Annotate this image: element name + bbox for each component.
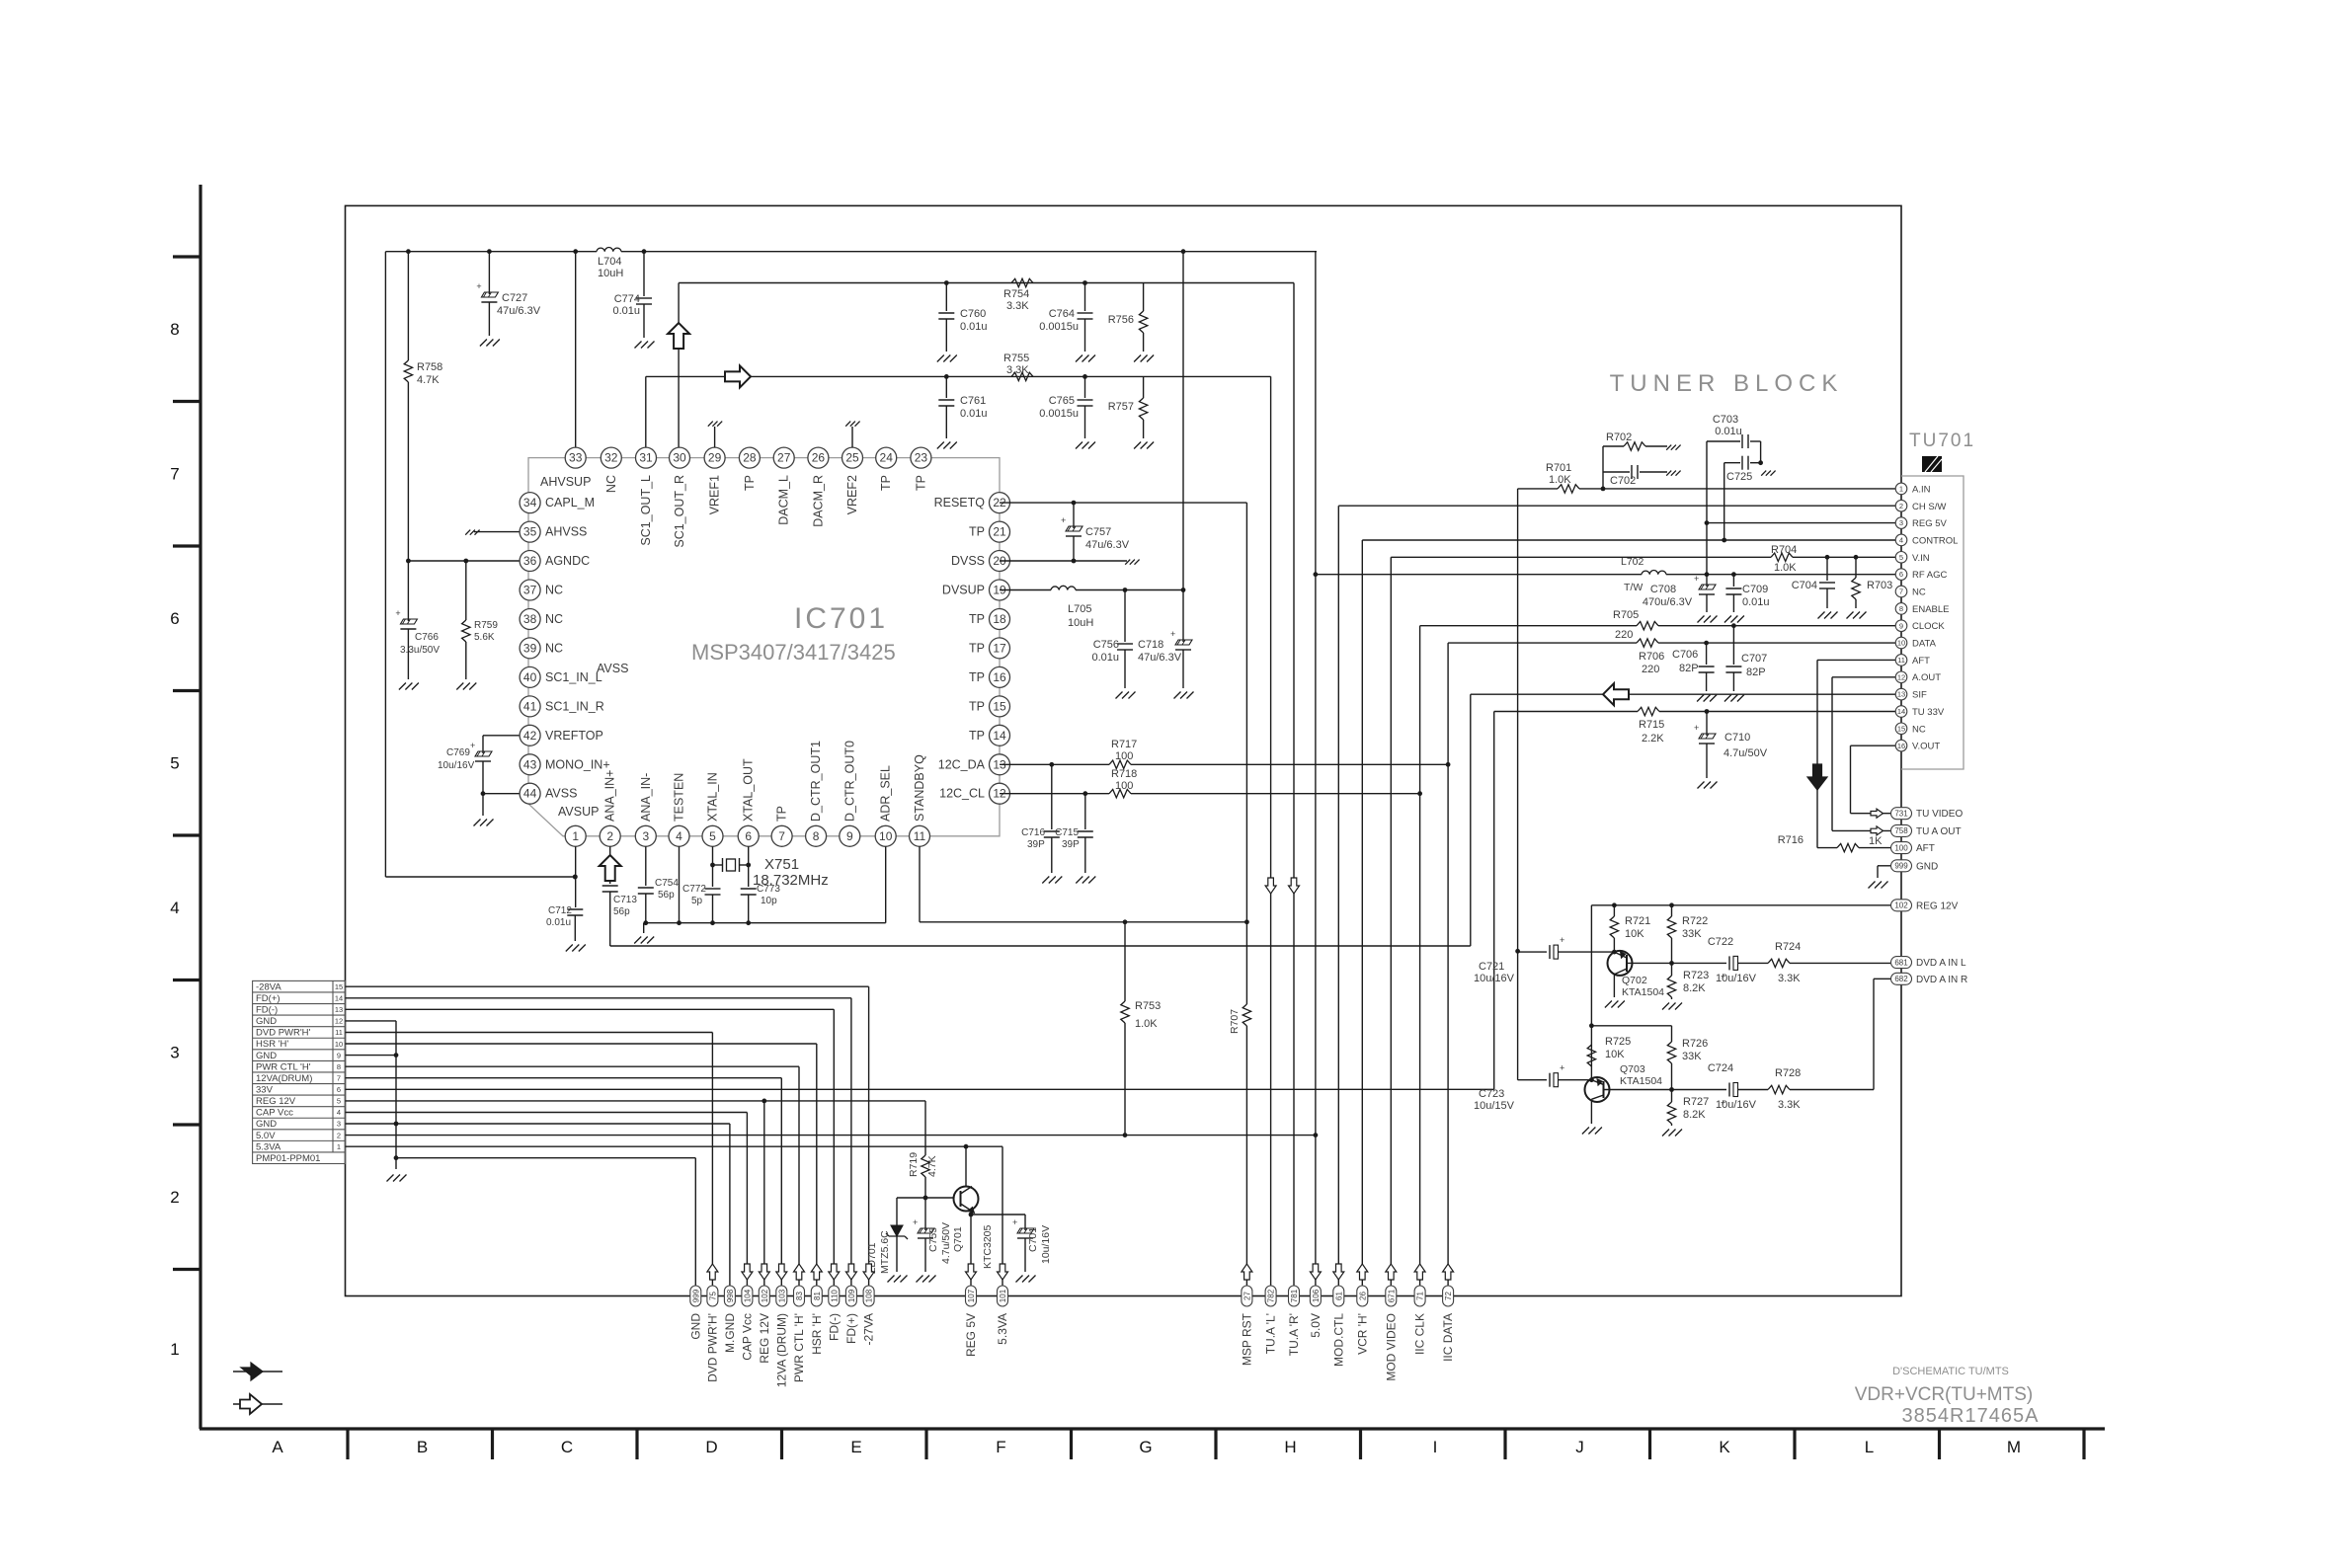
svg-text:G: G — [1139, 1438, 1152, 1456]
transistor Q703 — [1585, 1077, 1610, 1102]
node FD(+) — [845, 1286, 856, 1306]
svg-text:0.0015u: 0.0015u — [1039, 321, 1079, 333]
capacitor C715 — [1084, 794, 1086, 829]
svg-text:14: 14 — [993, 729, 1006, 743]
ground C766 — [399, 683, 406, 690]
svg-text:15: 15 — [1897, 724, 1905, 733]
svg-text:AHVSUP: AHVSUP — [540, 475, 591, 489]
svg-text:VREFTOP: VREFTOP — [545, 729, 603, 743]
svg-text:+: + — [1694, 723, 1699, 733]
svg-text:C755: C755 — [927, 1227, 939, 1252]
wire Q702 emitter — [1627, 962, 1672, 964]
svg-text:R727: R727 — [1683, 1096, 1709, 1108]
IC701 pin 31 — [636, 447, 657, 468]
svg-text:12C_DA: 12C_DA — [938, 757, 986, 771]
resistor R727 — [1671, 1090, 1673, 1103]
capacitor C703 — [1741, 434, 1743, 448]
wire XTAL_IN + capacitor C772 — [712, 846, 714, 887]
ground C704 — [1818, 612, 1825, 619]
svg-text:C724: C724 — [1708, 1062, 1733, 1074]
svg-text:+: + — [1560, 935, 1564, 945]
capacitor C701 — [1017, 1228, 1034, 1233]
svg-text:TU.A 'R': TU.A 'R' — [1287, 1313, 1301, 1356]
svg-text:6: 6 — [745, 829, 752, 843]
wire Q701 base — [897, 1197, 954, 1199]
capacitor C769 — [475, 751, 492, 756]
svg-text:GND: GND — [256, 1119, 277, 1130]
svg-text:72: 72 — [1444, 1292, 1453, 1300]
svg-text:TU 33V: TU 33V — [1912, 707, 1945, 718]
svg-text:PMP01-PPM01: PMP01-PPM01 — [256, 1153, 320, 1164]
svg-text:Q703: Q703 — [1620, 1063, 1645, 1075]
svg-text:R702: R702 — [1606, 431, 1632, 443]
wire 5.0V vertical — [1315, 252, 1317, 1287]
svg-text:AVSS: AVSS — [597, 662, 628, 675]
arrow CAP Vcc — [742, 1264, 753, 1280]
svg-text:SC1_OUT_R: SC1_OUT_R — [673, 475, 686, 548]
svg-text:220: 220 — [1642, 664, 1659, 675]
svg-text:DVSUP: DVSUP — [942, 584, 985, 597]
resistor R759 — [462, 620, 470, 642]
wire V.OUT loop — [1851, 745, 1896, 746]
resistor R703 — [1855, 557, 1857, 578]
svg-text:NC: NC — [545, 584, 563, 597]
svg-text:R707: R707 — [1229, 1009, 1241, 1034]
svg-text:4.7u/50V: 4.7u/50V — [1724, 747, 1768, 759]
capacitor C765 — [1078, 399, 1093, 401]
svg-text:33K: 33K — [1682, 928, 1702, 940]
capacitor C769 — [483, 735, 520, 737]
resistor R701 — [1558, 485, 1579, 493]
svg-text:1.0K: 1.0K — [1774, 562, 1797, 574]
svg-text:10K: 10K — [1605, 1049, 1625, 1060]
svg-text:GND: GND — [256, 1051, 277, 1061]
svg-text:0.01u: 0.01u — [1742, 596, 1770, 608]
svg-text:106: 106 — [1312, 1289, 1321, 1302]
svg-text:TUNER BLOCK: TUNER BLOCK — [1610, 370, 1844, 397]
svg-text:C712: C712 — [548, 905, 572, 916]
resistor R721 — [1610, 916, 1618, 938]
capacitor C761 — [938, 399, 954, 401]
svg-text:R704: R704 — [1771, 544, 1797, 556]
svg-text:33: 33 — [569, 451, 583, 465]
arrow VCR 'H' — [1357, 1264, 1368, 1280]
ground C702 — [1666, 471, 1671, 476]
resistor R717 — [1109, 760, 1131, 768]
svg-text:FD(-): FD(-) — [256, 1005, 278, 1016]
svg-text:6: 6 — [170, 609, 179, 628]
svg-text:16: 16 — [993, 670, 1006, 684]
capacitor C703 — [1707, 440, 1740, 442]
capacitor C756 — [1117, 643, 1133, 645]
svg-text:R757: R757 — [1108, 401, 1134, 413]
ground R702 — [1666, 445, 1671, 450]
wire Q703 collector to gnd — [1590, 1099, 1592, 1124]
resistor R716 — [1837, 843, 1859, 851]
wire TU.A R vertical — [1293, 283, 1295, 1287]
svg-text:2: 2 — [1899, 502, 1903, 510]
wire A.IN vertical — [1517, 489, 1519, 1080]
svg-text:104: 104 — [743, 1289, 752, 1302]
capacitor C716 — [1044, 830, 1060, 832]
IC701 pin 3 — [635, 825, 656, 846]
svg-text:R718: R718 — [1111, 768, 1137, 780]
svg-text:C754: C754 — [655, 878, 679, 889]
IC701 pin 20 — [990, 551, 1010, 572]
svg-text:C765: C765 — [1049, 395, 1075, 407]
svg-text:MSP3407/3417/3425: MSP3407/3417/3425 — [691, 640, 896, 665]
wire Q701 emitter / REG 5V — [971, 1212, 973, 1215]
svg-text:1: 1 — [337, 1142, 341, 1151]
svg-text:TP: TP — [969, 729, 985, 743]
svg-text:27: 27 — [1243, 1292, 1251, 1300]
svg-text:4: 4 — [676, 829, 682, 843]
svg-text:DATA: DATA — [1912, 639, 1937, 650]
node M.GND — [724, 1286, 735, 1306]
svg-text:AFT: AFT — [1912, 656, 1930, 666]
svg-text:RF AGC: RF AGC — [1912, 570, 1948, 581]
svg-text:TP: TP — [969, 641, 985, 655]
svg-text:998: 998 — [726, 1289, 735, 1302]
TU701 pin 1 — [1895, 483, 1907, 495]
legend filled arrow — [241, 1363, 263, 1380]
capacitor C766 — [400, 619, 417, 624]
svg-text:GND: GND — [256, 1016, 277, 1027]
svg-text:37: 37 — [523, 584, 537, 597]
svg-text:39P: 39P — [1027, 839, 1045, 850]
svg-text:3: 3 — [642, 829, 649, 843]
svg-text:C722: C722 — [1708, 936, 1733, 948]
svg-text:3854R17465A: 3854R17465A — [1902, 1405, 2040, 1427]
wire base Q702 — [1518, 951, 1547, 953]
node TU A OUT — [1891, 824, 1912, 836]
wire STANDBYQ — [919, 846, 921, 921]
svg-text:9: 9 — [337, 1051, 341, 1059]
svg-text:3: 3 — [1899, 518, 1903, 527]
svg-text:108: 108 — [865, 1289, 874, 1302]
svg-text:2: 2 — [606, 829, 613, 843]
capacitor C725 — [1741, 456, 1743, 470]
svg-text:13: 13 — [1897, 690, 1905, 699]
TU701 connector mark — [1922, 456, 1942, 472]
svg-text:C721: C721 — [1479, 961, 1504, 973]
svg-text:REG 12V: REG 12V — [758, 1313, 771, 1364]
svg-text:NC: NC — [604, 475, 618, 493]
capacitor C712 — [575, 846, 577, 907]
resistor R705 — [1637, 622, 1658, 630]
svg-text:I: I — [1433, 1438, 1438, 1456]
node FD(-) — [829, 1286, 840, 1306]
svg-text:10: 10 — [1897, 639, 1905, 648]
svg-text:IIC CLK: IIC CLK — [1413, 1313, 1427, 1355]
svg-text:REG 5V: REG 5V — [1912, 518, 1948, 529]
svg-text:+: + — [1061, 515, 1066, 525]
capacitor C755 — [924, 1198, 926, 1230]
resistor R706 — [1637, 639, 1658, 647]
node AFT — [1891, 842, 1912, 854]
svg-text:REG 5V: REG 5V — [964, 1313, 978, 1357]
wire Q702 collector to gnd — [1613, 975, 1615, 997]
svg-text:R759: R759 — [474, 620, 498, 631]
svg-text:31: 31 — [639, 451, 653, 465]
svg-text:25: 25 — [845, 451, 859, 465]
svg-text:11: 11 — [1897, 656, 1905, 665]
svg-text:CAPL_M: CAPL_M — [545, 496, 595, 510]
svg-text:1K: 1K — [1869, 835, 1883, 847]
node TU.A 'R' — [1289, 1286, 1300, 1306]
svg-text:5: 5 — [170, 754, 179, 773]
svg-text:2: 2 — [337, 1131, 341, 1139]
svg-text:R755: R755 — [1003, 353, 1029, 364]
svg-text:AVSUP: AVSUP — [558, 805, 599, 819]
TU701 pin 10 — [1895, 637, 1907, 649]
svg-text:R724: R724 — [1775, 941, 1801, 953]
svg-text:47u/6.3V: 47u/6.3V — [1085, 539, 1130, 551]
svg-text:12C_CL: 12C_CL — [939, 787, 985, 801]
arrow FD(+) — [845, 1264, 856, 1280]
svg-text:L705: L705 — [1068, 603, 1091, 615]
IC701 pin 23 — [911, 447, 931, 468]
TU701 pin 16 — [1895, 740, 1907, 751]
svg-text:XTAL_IN: XTAL_IN — [706, 772, 720, 822]
svg-text:TP: TP — [969, 699, 985, 713]
resistor R724 — [1768, 959, 1790, 967]
svg-text:1.0K: 1.0K — [1135, 1018, 1158, 1030]
capacitor C718 + 5V riser — [1182, 252, 1184, 642]
wire PWR CTL row — [346, 1065, 800, 1067]
svg-text:56p: 56p — [658, 890, 675, 901]
wire GND row9 — [346, 1055, 397, 1057]
arrow FD(-) — [829, 1264, 840, 1280]
wire R726 branch — [1591, 1025, 1671, 1027]
ground R759 — [456, 683, 463, 690]
wire pin33 riser — [575, 252, 577, 447]
ground AHVSS — [465, 530, 470, 535]
svg-text:C766: C766 — [415, 632, 439, 643]
node TU.A 'L' — [1265, 1286, 1276, 1306]
svg-text:10u/16V: 10u/16V — [1040, 1225, 1052, 1264]
resistor R753 — [1124, 922, 1126, 1001]
TU701 pin 5 — [1895, 552, 1907, 564]
node HSR 'H' — [811, 1286, 822, 1306]
wire HSR row — [346, 1043, 817, 1045]
resistor R727 — [1667, 1102, 1675, 1124]
svg-text:C704: C704 — [1792, 580, 1817, 591]
svg-text:C773: C773 — [757, 884, 780, 895]
wire FD(+) row — [346, 997, 851, 999]
wire 5.3VA row — [346, 1145, 1003, 1147]
svg-text:C757: C757 — [1085, 526, 1111, 538]
svg-text:2.2K: 2.2K — [1642, 733, 1664, 745]
capacitor C772 — [705, 888, 721, 890]
ground R727 — [1662, 1130, 1669, 1137]
svg-text:C718: C718 — [1138, 639, 1163, 651]
svg-text:1: 1 — [1899, 485, 1903, 494]
svg-text:75: 75 — [708, 1292, 717, 1300]
svg-text:TP: TP — [969, 525, 985, 539]
arrow up ANA_IN+ — [609, 846, 611, 884]
wire CAP Vcc row — [346, 1112, 748, 1114]
svg-text:C708: C708 — [1650, 584, 1676, 595]
svg-text:102: 102 — [761, 1289, 769, 1302]
arrow IIC CLK — [1414, 1264, 1425, 1280]
IC701 pin 12 — [990, 783, 1010, 804]
svg-text:STANDBYQ: STANDBYQ — [913, 754, 926, 822]
ground — [708, 422, 713, 427]
wire ADR_SEL — [885, 846, 887, 922]
svg-text:R721: R721 — [1625, 915, 1650, 927]
ground R723 — [1662, 1003, 1669, 1010]
capacitor C710 — [1699, 734, 1716, 739]
svg-text:4: 4 — [170, 899, 179, 917]
resistor R755 — [1011, 372, 1033, 380]
tuner block TU701 box — [1901, 476, 1964, 769]
wire -28VA row — [346, 985, 869, 987]
svg-text:5: 5 — [1899, 553, 1903, 562]
wire MOD VIDEO vertical — [1390, 557, 1392, 1286]
resistor R719 — [924, 1101, 926, 1155]
ground ZD701 — [888, 1276, 895, 1283]
node MSP RST — [1242, 1286, 1252, 1306]
svg-text:7: 7 — [1899, 588, 1903, 596]
svg-text:R703: R703 — [1867, 580, 1892, 591]
IC701 pin 9 — [840, 825, 860, 846]
svg-text:4.7K: 4.7K — [417, 374, 440, 386]
IC701 pin 13 — [990, 754, 1010, 775]
svg-text:32: 32 — [604, 451, 618, 465]
svg-text:R758: R758 — [417, 361, 442, 373]
svg-text:12VA(DRUM): 12VA(DRUM) — [256, 1073, 312, 1084]
svg-text:10u/16V: 10u/16V — [1716, 1099, 1757, 1111]
svg-text:13: 13 — [335, 1005, 343, 1014]
svg-text:21: 21 — [993, 525, 1006, 539]
svg-text:101: 101 — [999, 1289, 1007, 1302]
svg-text:7: 7 — [337, 1074, 341, 1083]
wire SIF line — [610, 945, 1471, 947]
capacitor C774 — [636, 297, 652, 299]
arrow right R755 — [725, 365, 751, 387]
transistor Q701 — [954, 1187, 979, 1212]
ground C708 — [1698, 616, 1705, 623]
capacitor C760 — [938, 312, 954, 314]
capacitor C724 — [1672, 1089, 1727, 1091]
resistor R722 — [1671, 905, 1673, 916]
svg-text:107: 107 — [967, 1289, 976, 1302]
svg-text:DVD A IN R: DVD A IN R — [1916, 975, 1967, 985]
resistor R759 — [465, 561, 467, 620]
resistor R703 — [1852, 578, 1860, 599]
IC701 pin 25 — [842, 447, 863, 468]
ground C764 — [1076, 355, 1082, 362]
ground VREF2 — [851, 427, 853, 447]
arrow 5.3VA — [998, 1264, 1008, 1280]
svg-text:R722: R722 — [1682, 915, 1708, 927]
capacitor C766 — [407, 561, 409, 621]
ground VREF1 — [714, 427, 716, 447]
svg-text:33V: 33V — [256, 1085, 274, 1096]
wire CH S/W line — [1338, 505, 1895, 507]
svg-text:MSP RST: MSP RST — [1240, 1312, 1253, 1366]
svg-text:C715: C715 — [1055, 827, 1079, 838]
svg-text:TESTEN: TESTEN — [673, 773, 686, 822]
ground Q702 — [1605, 1001, 1612, 1008]
svg-text:K: K — [1719, 1438, 1730, 1456]
ground C756 — [1116, 692, 1123, 699]
svg-text:43: 43 — [523, 757, 537, 771]
svg-text:TP: TP — [879, 475, 893, 491]
svg-text:7: 7 — [778, 829, 785, 843]
svg-text:R756: R756 — [1108, 314, 1134, 326]
capacitor C713 — [602, 885, 618, 887]
node REG 12V — [759, 1286, 769, 1306]
wire V.IN line + resistor R704 — [1391, 556, 1771, 558]
wire base Q703 — [1518, 1079, 1547, 1081]
svg-text:3.3K: 3.3K — [1006, 300, 1029, 312]
wire GND row12 — [346, 1020, 397, 1022]
svg-text:C764: C764 — [1049, 308, 1075, 320]
inductor L702 — [1642, 571, 1666, 575]
arrow -27VA — [863, 1264, 874, 1280]
ground C755 — [917, 1276, 923, 1283]
svg-text:DVD PWR'H': DVD PWR'H' — [256, 1028, 311, 1039]
svg-text:3.3K: 3.3K — [1006, 364, 1029, 376]
svg-text:24: 24 — [880, 451, 894, 465]
svg-text:10: 10 — [879, 829, 893, 843]
svg-text:36: 36 — [523, 554, 537, 568]
op-amp U1 IC701 outline — [528, 458, 1000, 836]
resistor R719 — [922, 1155, 929, 1177]
TU701 pin 2 — [1895, 500, 1907, 511]
svg-text:DACM_L: DACM_L — [777, 475, 791, 525]
svg-text:CONTROL: CONTROL — [1912, 535, 1958, 546]
svg-text:47u/6.3V: 47u/6.3V — [497, 305, 541, 317]
svg-text:C772: C772 — [682, 884, 706, 895]
svg-text:26: 26 — [1358, 1292, 1367, 1300]
svg-text:DVD A IN L: DVD A IN L — [1916, 958, 1966, 969]
resistor R723 — [1671, 963, 1673, 976]
transistor Q702 — [1608, 951, 1633, 976]
resistor R704 — [1771, 553, 1793, 561]
wire TESTEN — [679, 846, 681, 922]
svg-text:30: 30 — [673, 451, 686, 465]
wire CONTROL line — [1362, 539, 1895, 541]
capacitor C707 — [1725, 666, 1741, 667]
svg-text:R719: R719 — [908, 1152, 920, 1177]
wire to DVD A IN R — [1873, 979, 1875, 1089]
resistor R757 — [1139, 398, 1147, 420]
wire RF AGC + inductor L702 — [1316, 574, 1642, 576]
capacitor C757 — [1073, 503, 1075, 528]
svg-text:+: + — [1694, 574, 1699, 584]
wire R754 rail (SC1_OUT_R) — [679, 282, 1294, 284]
TU701 pin 3 — [1895, 517, 1907, 529]
ground Q703 — [1582, 1128, 1589, 1135]
svg-text:IC701: IC701 — [794, 602, 888, 635]
svg-text:0.01u: 0.01u — [960, 321, 988, 333]
svg-text:758: 758 — [1894, 826, 1908, 835]
svg-text:VREF1: VREF1 — [708, 475, 722, 514]
svg-text:C709: C709 — [1742, 584, 1768, 595]
capacitor C722 — [1728, 956, 1730, 970]
ground DVSS — [1125, 560, 1130, 565]
svg-text:100: 100 — [1115, 750, 1133, 762]
node DVD A IN L — [1891, 957, 1912, 969]
svg-text:D'SCHEMATIC TU/MTS: D'SCHEMATIC TU/MTS — [1892, 1366, 2009, 1377]
svg-text:27: 27 — [777, 451, 791, 465]
svg-text:39P: 39P — [1062, 839, 1080, 850]
svg-text:83: 83 — [795, 1292, 804, 1300]
svg-text:VREF2: VREF2 — [845, 475, 859, 514]
